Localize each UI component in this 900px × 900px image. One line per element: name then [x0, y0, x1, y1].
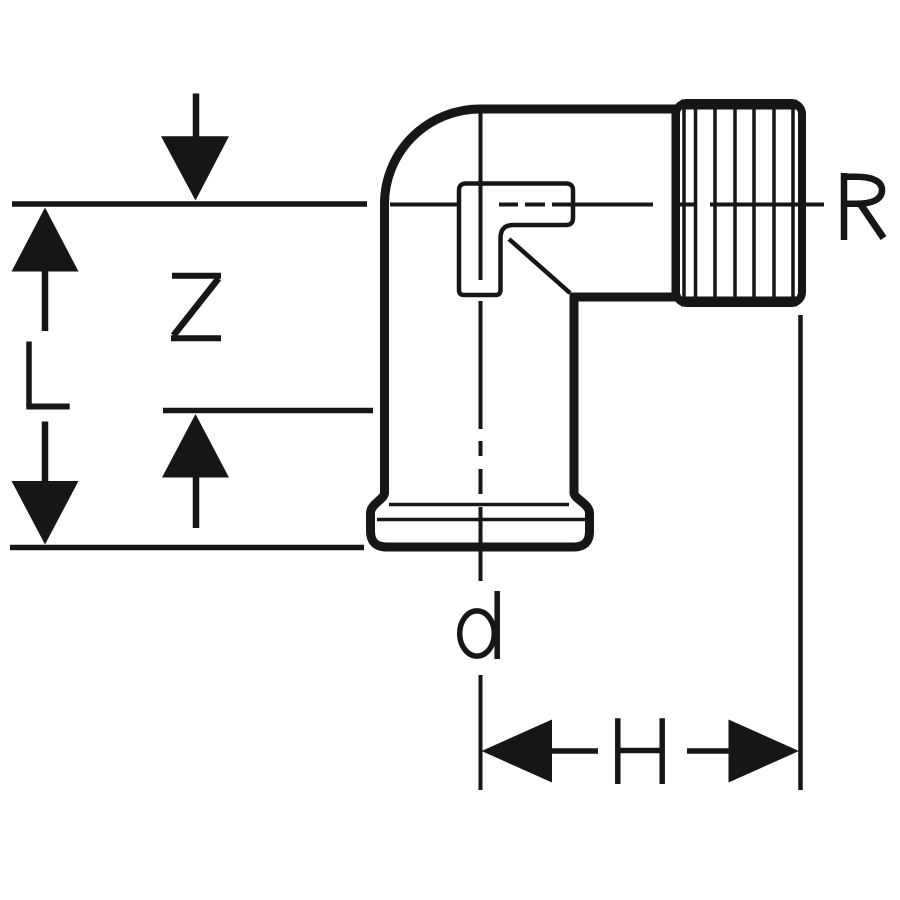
- press socket bead line lower: [377, 518, 587, 522]
- L bottom arrow: [12, 481, 79, 545]
- label R: [844, 173, 884, 240]
- thread line 3: [713, 107, 717, 299]
- horizontal centerline dash-dot: [390, 203, 824, 207]
- thread line 1: [682, 107, 686, 299]
- L top arrow: [12, 208, 79, 332]
- internal press profile: [459, 184, 573, 296]
- label L: [26, 342, 69, 407]
- vertical centerline dash-dot: [479, 110, 483, 790]
- press socket bead line upper: [389, 503, 569, 507]
- top reference line: [12, 201, 367, 207]
- threaded end bottom edge: [681, 297, 797, 307]
- Z reference line: [163, 408, 373, 414]
- Z top arrow: [161, 94, 229, 201]
- H dimension left arrow: [482, 720, 599, 783]
- H right extension line: [798, 315, 803, 790]
- label d: [460, 591, 498, 659]
- Z bottom arrow: [162, 414, 229, 528]
- label Z: [171, 276, 221, 338]
- thread line 2: [694, 107, 698, 299]
- threaded male end body: [676, 103, 802, 303]
- elbow body outline: [371, 109, 677, 547]
- threaded end top edge: [681, 100, 797, 110]
- section diagonal line: [509, 239, 570, 293]
- thread line 5: [752, 107, 756, 299]
- thread line 6: [772, 107, 776, 299]
- L lower stem: [42, 422, 49, 482]
- label H: [618, 718, 662, 784]
- bottom reference line: [10, 545, 364, 551]
- thread line 7: [791, 107, 795, 299]
- thread line 4: [733, 107, 737, 299]
- H dimension right arrow: [687, 720, 799, 783]
